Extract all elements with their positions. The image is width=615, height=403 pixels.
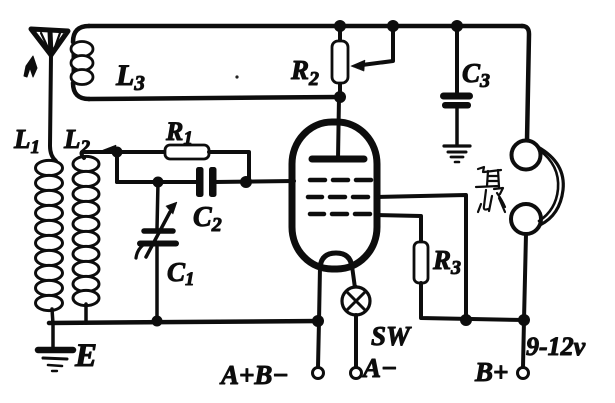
node wiper top — [387, 20, 399, 32]
resistor R1 — [165, 145, 249, 180]
svg-text:C2: C2 — [193, 202, 222, 236]
svg-text:L1: L1 — [13, 124, 40, 158]
node C3 top — [451, 20, 463, 32]
ground E — [38, 323, 73, 371]
wire L1 bottom to ground bus — [52, 309, 53, 324]
svg-text:A−: A− — [361, 353, 397, 383]
svg-text:C1: C1 — [167, 257, 195, 290]
coil L3 loop (top bus + left edge + bumps) — [73, 26, 89, 99]
svg-text:C3: C3 — [462, 58, 490, 92]
capacitor C2 — [196, 167, 217, 197]
tube grid row 2 — [308, 195, 368, 200]
svg-text:9-12v: 9-12v — [526, 332, 586, 361]
antenna A — [31, 29, 68, 55]
resistor R2 (regeneration control) — [332, 26, 348, 97]
wire node down — [115, 152, 119, 182]
svg-text:R3: R3 — [432, 245, 461, 279]
R2 wiper arrow — [351, 26, 393, 71]
wire phones to B+ — [523, 234, 526, 367]
capacitor C1 (variable) — [136, 182, 177, 321]
svg-text:A+B−: A+B− — [219, 360, 289, 390]
wire cathode left lead — [318, 267, 320, 367]
coil L2 — [73, 156, 99, 305]
node grid junction — [240, 176, 252, 188]
wire node to R1 — [117, 150, 165, 154]
svg-text:R1: R1 — [165, 117, 193, 149]
ground below C3 — [444, 146, 470, 162]
terminal B+ — [518, 368, 529, 379]
node tube cathode lead — [312, 315, 324, 327]
tube grid row 3 — [310, 212, 370, 217]
tube plate — [312, 97, 364, 159]
svg-text:B+: B+ — [474, 357, 508, 387]
wire grid line — [117, 180, 197, 184]
tube cathode — [320, 253, 352, 268]
node dropper bottom — [460, 314, 472, 326]
svg-text:R2: R2 — [290, 55, 319, 90]
tube U1 envelope — [292, 122, 377, 269]
node C1 bottom — [152, 316, 163, 327]
wire top bus right corner down to phones — [522, 26, 529, 141]
svg-text:L2: L2 — [63, 124, 91, 158]
svg-text:E: E — [74, 338, 97, 374]
wire antenna to L1 — [50, 55, 56, 161]
tube grid row 1 — [310, 178, 371, 183]
terminal A+B- — [313, 368, 324, 379]
wire ground bus bottom-left — [49, 321, 321, 323]
label A (arrow glyph) — [24, 56, 37, 77]
wire L3 bottom edge to plate node — [89, 97, 340, 99]
svg-text:SW: SW — [371, 321, 412, 351]
coil L1 — [36, 160, 63, 310]
wire L2 bottom to ground bus — [84, 304, 88, 323]
capacitor C3 — [440, 26, 473, 144]
node R2 top — [334, 20, 346, 32]
svg-text:L3: L3 — [115, 59, 145, 95]
node R2 bottom / plate — [334, 91, 346, 103]
lamp switch SW — [342, 287, 370, 367]
wire C2 to tube grid — [215, 181, 294, 182]
headphones — [511, 141, 563, 235]
speck — [235, 75, 238, 78]
wire L2 top to node — [82, 152, 118, 158]
resistor R3 — [414, 242, 524, 320]
node B+ branch — [518, 314, 530, 326]
wire cathode right lead — [352, 266, 355, 288]
wire top bus — [89, 24, 522, 29]
wire row2 to dropper — [377, 195, 466, 320]
terminal A- — [351, 368, 362, 379]
node C1 top — [153, 177, 164, 188]
wire row3 to R3 — [377, 215, 421, 242]
node at L2 top (junction + tap arrow) — [103, 145, 123, 158]
label phones (glyphs) — [476, 167, 505, 212]
